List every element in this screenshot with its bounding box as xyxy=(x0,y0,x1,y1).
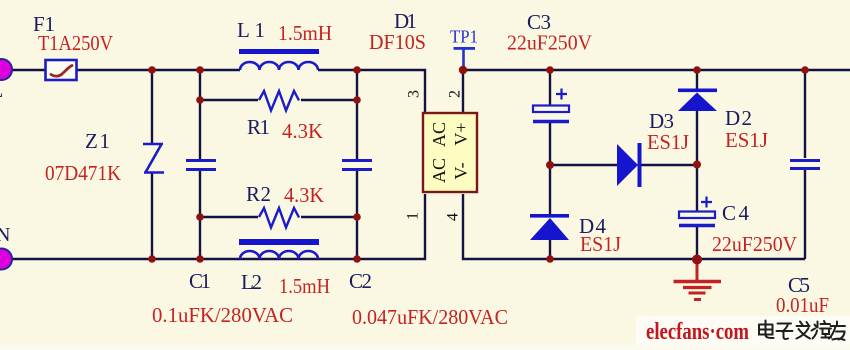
svg-text:C1: C1 xyxy=(189,269,211,293)
node R2 left xyxy=(196,213,204,221)
svg-text:0.1uFK/280VAC: 0.1uFK/280VAC xyxy=(152,303,293,327)
resistor R1 xyxy=(259,91,299,111)
svg-text:C4: C4 xyxy=(722,201,750,225)
svg-text:4.3K: 4.3K xyxy=(284,183,324,207)
wire: C3 bottom to D4 top xyxy=(549,123,551,214)
svg-text:3: 3 xyxy=(406,90,423,98)
svg-text:Z1: Z1 xyxy=(85,129,110,153)
capacitor C2 xyxy=(342,161,372,170)
svg-text:4.3K: 4.3K xyxy=(282,119,323,143)
wire: Z1 branch lower xyxy=(151,173,153,259)
wire: D2 top lead xyxy=(696,70,698,89)
svg-text:07D471K: 07D471K xyxy=(45,161,121,185)
node D3/D2/C4 xyxy=(693,161,701,169)
svg-text:L: L xyxy=(0,80,3,102)
node bottom rail / C2 column xyxy=(353,255,361,263)
wire: D3 left lead xyxy=(550,164,617,166)
wire: C1 branch upper xyxy=(199,70,201,159)
node R1 right xyxy=(353,96,361,104)
test point TP1 xyxy=(454,47,476,70)
wire: R1 right lead xyxy=(301,99,357,101)
svg-text:0.01uF: 0.01uF xyxy=(776,293,829,317)
wire: C2 branch lower xyxy=(356,171,358,259)
diode D2 xyxy=(678,89,717,112)
svg-text:TP1: TP1 xyxy=(450,27,478,47)
node C3/D3/D4 xyxy=(546,161,554,169)
wire: L input to fuse xyxy=(12,69,45,71)
diode D3 xyxy=(617,143,642,187)
node V+ rail / C5 xyxy=(801,66,809,74)
resistor R2 xyxy=(259,208,299,228)
svg-text:22uF250V: 22uF250V xyxy=(507,31,592,55)
wire: bottom N rail left xyxy=(12,194,425,259)
node top rail / Z1 xyxy=(148,66,156,74)
wire: D3 right lead xyxy=(641,164,697,166)
wire: R1 left lead xyxy=(200,99,258,101)
wire: bridge pin4 to bottom right rail xyxy=(463,194,805,259)
node V+ rail / C3 xyxy=(546,66,554,74)
ground xyxy=(674,261,722,300)
svg-text:D2: D2 xyxy=(725,106,752,130)
node V+ rail / D2 xyxy=(693,66,701,74)
logo background band xyxy=(636,316,850,345)
wire: L1 to bridge pin3 corner xyxy=(318,70,425,113)
svg-text:AC: AC xyxy=(429,158,449,183)
wire: R2 left lead xyxy=(200,216,258,218)
capacitor C1 xyxy=(186,161,216,170)
node top rail / C1 column xyxy=(196,66,204,74)
logo chinese characters 电子发烧友 xyxy=(759,321,845,341)
inductor L1 xyxy=(239,49,319,70)
wire: D4 bottom lead xyxy=(549,240,551,259)
connector L (line input) xyxy=(0,59,12,80)
wire: C5 branch upper xyxy=(804,70,806,158)
node bottom rail / D4 xyxy=(546,255,554,263)
svg-text:2: 2 xyxy=(447,90,464,98)
svg-text:C2: C2 xyxy=(349,269,372,293)
svg-text:22uF250V: 22uF250V xyxy=(712,232,797,256)
inductor L2 xyxy=(239,239,319,259)
capacitor C4 (polarized) xyxy=(679,197,715,226)
wire: D2 bottom to C4 top xyxy=(696,111,698,211)
svg-text:AC: AC xyxy=(429,122,449,147)
wire: Z1 branch upper xyxy=(151,70,153,144)
wire: C3 branch upper xyxy=(549,70,551,105)
wire: C4 bottom lead xyxy=(696,227,698,259)
svg-text:ES1J: ES1J xyxy=(647,130,689,154)
svg-text:elecfans·com: elecfans·com xyxy=(646,319,749,345)
capacitor C5 xyxy=(790,161,820,169)
fuse F1 xyxy=(46,60,77,80)
diode D4 xyxy=(530,214,569,240)
wire: C2 branch upper xyxy=(356,70,358,159)
node bottom rail / Z1 xyxy=(148,255,156,263)
svg-text:V-: V- xyxy=(451,162,471,179)
svg-text:ES1J: ES1J xyxy=(725,128,768,152)
svg-text:4: 4 xyxy=(445,213,462,221)
svg-text:DF10S: DF10S xyxy=(369,30,426,54)
bridge rectifier U/D1 body xyxy=(423,113,477,192)
svg-text:N: N xyxy=(0,224,10,246)
svg-text:V+: V+ xyxy=(451,122,471,145)
svg-text:R1: R1 xyxy=(247,115,270,139)
node R1 left xyxy=(196,96,204,104)
svg-text:R2: R2 xyxy=(246,182,271,206)
svg-text:L2: L2 xyxy=(241,270,262,294)
wire: R2 right lead xyxy=(301,216,357,218)
connector N (neutral input) xyxy=(0,249,12,270)
wire: V+ rail TP1 node to right edge xyxy=(463,69,850,71)
node TP1 / pin2 xyxy=(459,66,467,74)
wire: C1 branch lower xyxy=(199,171,201,259)
wire: bridge pin2 up to TP1 node xyxy=(462,70,464,113)
svg-text:ES1J: ES1J xyxy=(580,232,621,256)
svg-text:T1A250V: T1A250V xyxy=(38,31,113,55)
wire: fuse to L1 xyxy=(77,69,240,71)
node R2 right xyxy=(353,213,361,221)
capacitor C3 (polarized) xyxy=(533,89,569,122)
node bottom rail / C1 column xyxy=(196,255,204,263)
wire: C5 branch lower xyxy=(804,170,806,259)
svg-text:1.5mH: 1.5mH xyxy=(279,274,330,298)
varistor Z1 xyxy=(143,144,164,173)
svg-text:1.5mH: 1.5mH xyxy=(278,21,332,45)
svg-text:0.047uFK/280VAC: 0.047uFK/280VAC xyxy=(352,305,508,329)
svg-text:1: 1 xyxy=(405,212,422,220)
node top rail / C2 column xyxy=(353,66,361,74)
node bottom rail / ground xyxy=(692,255,702,265)
